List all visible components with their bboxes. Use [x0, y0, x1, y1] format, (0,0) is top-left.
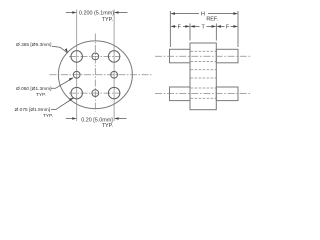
horizontal centerline top row — [69, 55, 121, 57]
dimension bottom 0.20 — [66, 118, 127, 120]
hole small bottom-center — [92, 90, 99, 97]
svg-text:TYP.: TYP. — [43, 113, 53, 119]
horizontal centerline bottom row — [69, 92, 121, 94]
hole big bottom-right — [108, 87, 120, 99]
hole big bottom-left — [71, 87, 83, 99]
svg-text:Ø.050 [Ø1.3mm]: Ø.050 [Ø1.3mm] — [16, 86, 51, 92]
hidden bore lines upper — [191, 51, 217, 98]
svg-text:H: H — [201, 12, 205, 18]
dimension H REF — [170, 11, 238, 47]
hole big top-left — [71, 51, 83, 63]
svg-text:0.200 (5.1mm): 0.200 (5.1mm) — [79, 11, 114, 17]
centerline upper row — [155, 55, 251, 57]
body center rectangle — [190, 43, 216, 110]
hole small mid-right — [111, 71, 118, 78]
flange lower-right — [216, 87, 238, 101]
vertical centerline center column — [94, 34, 96, 112]
centerline lower row — [155, 92, 251, 94]
svg-text:TYP.: TYP. — [102, 123, 113, 129]
hole big top-right — [108, 51, 120, 63]
hole small mid-left — [73, 71, 80, 78]
flange upper-right — [216, 49, 238, 63]
dimension top 0.200 — [66, 12, 128, 14]
vertical centerline left column — [76, 10, 78, 122]
svg-text:Ø.075 [Ø1.9mm]: Ø.075 [Ø1.9mm] — [15, 107, 50, 113]
horizontal centerline middle row — [50, 74, 152, 76]
flange upper-left — [170, 49, 191, 63]
svg-text:Ø.365 [Ø9.3mm]: Ø.365 [Ø9.3mm] — [16, 42, 51, 48]
vertical centerline right column — [113, 10, 115, 122]
dimension F T F — [175, 24, 234, 41]
svg-text:REF.: REF. — [206, 17, 218, 23]
disc outline — [58, 41, 132, 109]
hole small top-center — [92, 53, 99, 60]
svg-text:TYP.: TYP. — [102, 17, 113, 23]
flange lower-left — [170, 87, 191, 101]
svg-text:TYP.: TYP. — [36, 92, 46, 98]
